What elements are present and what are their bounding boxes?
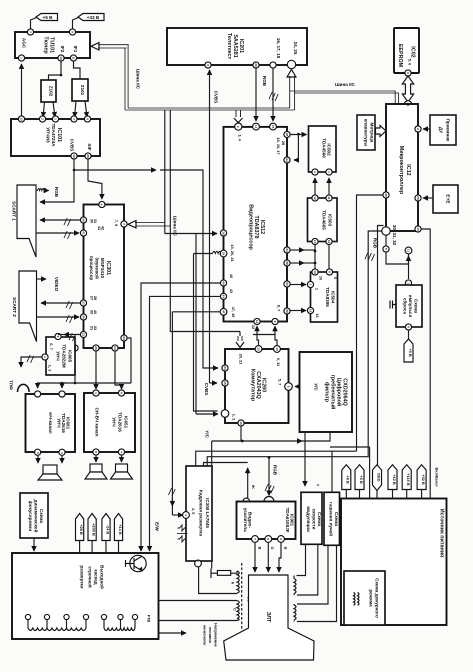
svg-text:СН-ВЧ канал: СН-ВЧ канал (95, 408, 100, 437)
svg-text:FTB: FTB (147, 615, 152, 623)
IC260 bottom pin 16 (238, 420, 244, 426)
MSP pins 21,22 (80, 331, 86, 337)
svg-text:1: 1 (308, 284, 312, 286)
IC503 pin 12 (312, 195, 318, 201)
wire 47,48 from EW line (172, 312, 220, 515)
svg-text:11: 11 (406, 249, 410, 253)
power flag +5V (36, 14, 58, 21)
svg-text:Источник питания: Источник питания (439, 509, 445, 557)
IC512 right pin 24 (284, 157, 290, 163)
MSP pins 41,42 (80, 230, 86, 236)
deflection yoke coil K (237, 571, 239, 593)
svg-text:1: 1 (406, 282, 410, 284)
IC512 bottom pins 8,7 (272, 318, 278, 324)
svg-text:6: 6 (56, 336, 60, 338)
flag +14V (114, 514, 122, 541)
svg-text:Цифровой: Цифровой (336, 378, 343, 406)
svg-text:строчной: строчной (88, 566, 94, 588)
I2C bus tee to microcontroller (290, 91, 399, 104)
svg-text:Телетекст: Телетекст (226, 33, 232, 60)
svg-text:SCART 2: SCART 2 (12, 297, 17, 317)
wire AGC feedback (21, 64, 23, 119)
MSP pins 30,31 (80, 217, 86, 223)
svg-text:TDA4724A: TDA4724A (51, 124, 56, 148)
svg-text:3: 3 (236, 126, 240, 128)
svg-text:MSP3410: MSP3410 (100, 258, 105, 279)
IC512 pin 18 left (220, 230, 226, 236)
svg-text:гашения лучей: гашения лучей (328, 502, 334, 536)
power amp IC651 TDA2616 (84, 393, 135, 452)
svg-text:7: 7 (72, 118, 76, 120)
supply line to comb filter and vertical resistor (212, 440, 302, 442)
IC512 right pin 34 (284, 247, 290, 253)
svg-text:9: 9 (327, 271, 331, 273)
svg-text:УНЧ: УНЧ (56, 351, 61, 360)
svg-text:Шина IIC: Шина IIC (335, 82, 356, 87)
flag +5V (355, 465, 364, 490)
uC right pin standby (415, 226, 421, 232)
IC512 pins 47,48 left (220, 308, 227, 315)
wire Z102 out b (53, 102, 55, 117)
SCART 1 connector (12, 185, 37, 257)
svg-text:ДУ: ДУ (439, 127, 444, 133)
IC504 pin 16 (307, 307, 313, 313)
svg-text:47, 48: 47, 48 (231, 307, 236, 319)
IC503 bottom pins (312, 238, 318, 244)
svg-text:38: 38 (285, 261, 289, 265)
Y/C pair verticals (194, 233, 218, 414)
svg-text:+115 В: +115 В (406, 473, 411, 486)
wire from IC512 bottom into IC260 top pins (257, 335, 259, 346)
svg-text:фокусировки: фокусировки (28, 501, 34, 532)
svg-text:Кадровая развертка: Кадровая развертка (199, 490, 204, 537)
IK beam current line (204, 463, 248, 467)
IC101 pin 13 (18, 116, 24, 122)
IC201 pins 16,17,18 RGB (270, 62, 276, 68)
svg-text:импульса: импульса (408, 295, 413, 318)
svg-text:6: 6 (406, 72, 410, 74)
svg-text:TDA4665: TDA4665 (322, 210, 327, 230)
svg-text:RGB: RGB (373, 238, 378, 249)
svg-text:SCART 1: SCART 1 (12, 201, 17, 221)
SIF wire to sound processor (88, 159, 102, 199)
svg-text:+5 В: +5 В (43, 15, 54, 20)
svg-text:19, 20, 21: 19, 20, 21 (230, 244, 235, 262)
svg-text:13: 13 (256, 347, 260, 351)
svg-text:+12 В: +12 В (392, 474, 397, 485)
svg-text:RGB: RGB (273, 465, 278, 476)
svg-text:16: 16 (239, 421, 243, 425)
flag DEG (373, 465, 382, 491)
svg-text:Шина IIC: Шина IIC (136, 69, 141, 90)
svg-text:Схема: Схема (317, 512, 322, 527)
IC101 pin 8 (84, 116, 90, 122)
svg-text:8, 7: 8, 7 (277, 305, 282, 312)
IC512 right pin 37 (284, 281, 290, 287)
svg-text:4: 4 (100, 204, 104, 206)
wire stage to yoke return (159, 620, 238, 622)
I2C bus arrow up into 24,25 (287, 70, 296, 78)
standby transformer symbol (354, 593, 360, 606)
svg-text:7: 7 (122, 223, 126, 225)
IC201 pin 9 CVBS (205, 62, 211, 68)
svg-text:47: 47 (221, 310, 225, 314)
svg-text:IC12: IC12 (405, 164, 411, 175)
svg-text:1: 1 (53, 118, 57, 120)
junction dot (60, 74, 63, 77)
wire IF1 to Z101 (74, 61, 81, 79)
IC503 pin 11 (326, 195, 332, 201)
svg-text:EEPROM: EEPROM (397, 44, 403, 68)
svg-text:9: 9 (406, 326, 410, 328)
MSP right lower pin (121, 335, 127, 341)
svg-text:43: 43 (221, 295, 225, 299)
svg-text:2: 2 (196, 560, 200, 562)
svg-text:15, 16, 17: 15, 16, 17 (276, 137, 281, 154)
svg-text:CVBS: CVBS (70, 139, 75, 152)
svg-text:10: 10 (313, 270, 317, 274)
line to vertical deflection (196, 451, 357, 466)
IC512 bottom pin 12 (254, 318, 260, 324)
CVBS node wire down (40, 159, 74, 202)
tuner pin 10 IF2 (58, 55, 64, 61)
PSU feed wire (369, 447, 371, 498)
svg-text:28: 28 (285, 133, 289, 137)
wire Z102 out a (43, 102, 45, 117)
MSP bottom pin b (93, 345, 99, 351)
svg-text:Выходной: Выходной (100, 565, 106, 589)
svg-text:развертки: развертки (80, 565, 85, 588)
IC504 pin 1 (307, 281, 313, 287)
svg-text:30, 31, 32: 30, 31, 32 (392, 225, 397, 246)
RGB wire from uC pins 30,31,32 down right channel (368, 231, 382, 457)
remote pin 2 on uC (415, 126, 421, 132)
svg-text:процессор: процессор (89, 256, 94, 281)
svg-text:46: 46 (406, 103, 410, 107)
deflection yoke coil C (237, 601, 239, 621)
svg-text:2: 2 (416, 128, 420, 130)
IC605 top pin (55, 333, 61, 339)
svg-text:20: 20 (416, 196, 420, 200)
wire IC503-11 up to IC502-1 (328, 178, 330, 195)
IC504 pin 9 (326, 269, 332, 275)
audio wire into SCART2 (41, 302, 84, 304)
svg-text:16, 17, 18: 16, 17, 18 (276, 38, 281, 59)
svg-text:25: 25 (73, 346, 77, 350)
svg-text:34: 34 (285, 248, 289, 252)
IC101 pin 7 (71, 116, 77, 122)
IC101 pin 1 (52, 116, 58, 122)
power amp IC681 TDA2616 (26, 394, 76, 452)
IC512 right pin 28 (284, 131, 290, 137)
svg-text:каскад: каскад (94, 569, 99, 584)
wire +5V to tuner pin 7 (31, 18, 37, 30)
svg-text:15: 15 (271, 125, 275, 129)
svg-text:9: 9 (119, 392, 123, 394)
svg-text:7, 8: 7, 8 (114, 220, 119, 227)
svg-text:1: 1 (19, 57, 23, 59)
svg-text:5: 5 (244, 501, 248, 503)
IC300 pin 4,5 (183, 512, 190, 519)
svg-text:Y: Y (316, 484, 321, 487)
svg-text:24, 25: 24, 25 (293, 42, 298, 55)
IC260 right pin 5,7 (285, 383, 293, 391)
CRT heater supply arrow (159, 632, 187, 634)
capacitor stub (390, 301, 396, 309)
IC504 TDA8395 (311, 272, 338, 322)
svg-text:24: 24 (285, 158, 289, 162)
svg-text:20, 21: 20, 21 (239, 354, 244, 366)
uC pin 45 left (383, 192, 389, 198)
flag +8V (342, 465, 351, 490)
svg-text:IC300 LA7845: IC300 LA7845 (205, 498, 210, 528)
DEG control wire (378, 226, 384, 466)
IC260 left pins (222, 365, 228, 371)
flag +28V (76, 514, 84, 541)
I2C bus arrow into IC512 pins 3,4 (234, 118, 243, 123)
svg-text:1: 1 (43, 356, 47, 358)
I2C bus jog down to horizontal run (125, 45, 128, 110)
svg-text:IC605: IC605 (68, 350, 73, 363)
coil A beside CRT neck (294, 576, 296, 596)
flag +12V (388, 465, 397, 490)
CVBS branch down to commutator (203, 233, 218, 368)
wire IC503-12 up to IC502-2 (314, 178, 316, 195)
svg-text:28: 28 (86, 154, 90, 158)
wire RGB to IC512 (272, 68, 274, 121)
svg-text:41: 41 (81, 231, 85, 235)
svg-text:5: 5 (286, 386, 290, 388)
EYE pin 20 on uC (415, 195, 421, 201)
speaker right (121, 455, 123, 462)
svg-text:Коммутатор: Коммутатор (250, 369, 256, 402)
E/W line vertical (172, 514, 183, 516)
uC bottom pins 30,31,32 (382, 227, 390, 235)
svg-text:16: 16 (72, 154, 76, 158)
svg-text:1: 1 (267, 501, 271, 503)
IC502 pin 2 (312, 169, 318, 175)
svg-text:24: 24 (223, 366, 227, 370)
flag +115V (402, 465, 411, 490)
svg-text:DEG: DEG (376, 473, 381, 481)
bidirectional bus arrow EEPROM-microcontroller (402, 76, 413, 102)
svg-text:19: 19 (221, 252, 225, 256)
svg-text:1: 1 (327, 171, 331, 173)
svg-text:8: 8 (266, 538, 270, 540)
IC681 bottom pins (35, 449, 41, 455)
svg-text:IK: IK (251, 485, 256, 489)
svg-text:12: 12 (313, 196, 317, 200)
I2C bus arrow into tuner (91, 43, 99, 51)
svg-text:Матрица: Матрица (370, 123, 375, 143)
wire IF2 to Z102 (49, 61, 62, 80)
node: bus corner to horizontal I2C pair (125, 108, 295, 110)
Y signal from comb filter to velocity block (304, 432, 306, 486)
node below uC (385, 235, 387, 247)
svg-text:9: 9 (279, 538, 283, 540)
IC300 pin 2 bottom (195, 560, 202, 567)
svg-text:IC02: IC02 (410, 46, 416, 57)
svg-text:+32 В: +32 В (421, 474, 426, 485)
IC901 bottom pins B G R (252, 536, 259, 543)
IC605 left pin (42, 354, 48, 360)
beam limiter feed (331, 451, 333, 492)
coil B beside CRT neck (294, 604, 296, 622)
svg-text:+5 В: +5 В (359, 475, 364, 484)
svg-text:10: 10 (59, 56, 63, 60)
IF amp IC101 TDA4724A (11, 119, 100, 156)
svg-text:9: 9 (70, 31, 74, 33)
svg-text:7: 7 (28, 31, 32, 33)
svg-text:Микроконтроллер: Микроконтроллер (398, 146, 404, 195)
svg-text:В: В (258, 547, 263, 550)
CVBS wire to videoprocessor (74, 170, 203, 227)
svg-text:CVBS: CVBS (214, 91, 219, 104)
keyboard matrix block (357, 115, 375, 150)
svg-text:TDA6108JF: TDA6108JF (285, 507, 290, 532)
RGB drop to video amplifier (268, 457, 270, 495)
IC260 top pins (255, 346, 262, 353)
svg-text:ЭЛТ: ЭЛТ (265, 612, 271, 623)
IC512 pins 15,16,17 (270, 123, 277, 130)
svg-text:5, 6: 5, 6 (408, 59, 413, 66)
svg-text:30: 30 (81, 218, 85, 222)
svg-text:сброса: сброса (403, 298, 409, 314)
svg-text:40: 40 (221, 281, 225, 285)
svg-text:У/С: У/С (314, 383, 319, 391)
IC512 pins 19,20,21 left (220, 250, 227, 257)
svg-text:+5 В: +5 В (408, 348, 413, 357)
svg-text:УНЧ: УНЧ (57, 418, 62, 427)
sawtooth symbols (178, 525, 187, 542)
block outputs down to CRT coils (297, 545, 318, 596)
svg-text:24: 24 (113, 346, 117, 350)
CVBS wire down from teletext (209, 70, 211, 383)
svg-text:гребенчатый: гребенчатый (330, 375, 337, 410)
svg-text:9: 9 (206, 64, 210, 66)
svg-text:1: 1 (36, 396, 40, 398)
reset block bottom pin (405, 324, 411, 330)
svg-text:7: 7 (253, 538, 257, 540)
SCART 2 connector (12, 271, 37, 342)
svg-text:6, 7: 6, 7 (49, 343, 54, 350)
svg-text:6: 6 (36, 452, 40, 454)
VIDEO out wire (37, 278, 47, 280)
microcontroller pin 46,48 (404, 101, 412, 109)
svg-text:15: 15 (416, 227, 420, 231)
MSP bottom pin c (112, 345, 118, 351)
svg-text:Приемник: Приемник (446, 119, 451, 142)
svg-text:кинескопа: кинескопа (203, 625, 208, 646)
wire IC260 pin16 joins supply line (240, 426, 242, 441)
wire line stage to yoke C (159, 600, 238, 602)
svg-text:13: 13 (19, 117, 23, 121)
svg-text:-14 В: -14 В (105, 525, 110, 535)
svg-text:40: 40 (229, 274, 234, 278)
svg-text:TDA4566: TDA4566 (322, 138, 327, 158)
svg-text:11: 11 (71, 56, 75, 60)
svg-text:IF2: IF2 (60, 46, 65, 53)
svg-text:Шина IIC: Шина IIC (173, 216, 178, 237)
IC512 pin 43 left (220, 293, 226, 299)
IC101 pin 2 (39, 116, 45, 122)
vertical links IC503-IC504 (315, 245, 329, 270)
svg-text:4: 4 (184, 514, 188, 516)
filter Z101 (72, 79, 88, 101)
svg-text:+14 В: +14 В (118, 524, 123, 535)
svg-text:9: 9 (60, 396, 64, 398)
wires up into bottom pins (256, 326, 258, 334)
IC651 pin 1 (93, 390, 99, 396)
svg-text:2: 2 (313, 171, 317, 173)
svg-text:4: 4 (60, 452, 64, 454)
svg-text:Тюнер: Тюнер (43, 36, 49, 54)
svg-text:режима: режима (369, 589, 374, 607)
yoke dashed core (241, 563, 243, 629)
I2C arrow into commutator (236, 342, 244, 348)
svg-text:питания: питания (208, 627, 213, 643)
svg-text:модуляции: модуляции (306, 506, 311, 532)
svg-text:G: G (270, 546, 275, 549)
IC201 pins 24,25 I2C (287, 60, 295, 68)
svg-text:С: С (233, 608, 238, 611)
cathode drive wires (254, 543, 256, 573)
IC512 pin 40 left (220, 280, 226, 286)
svg-text:+200 В: +200 В (91, 523, 96, 536)
svg-text:5: 5 (384, 248, 388, 250)
svg-text:VIDEO: VIDEO (54, 277, 59, 292)
svg-text:27: 27 (81, 301, 85, 305)
IC512 right pin 36 (284, 308, 290, 314)
svg-text:клавиатуры: клавиатуры (364, 119, 369, 147)
svg-text:Z101: Z101 (80, 85, 85, 96)
remote receiver block (430, 115, 456, 145)
RGB bundle out of SCART1 (37, 189, 49, 191)
FBT windings (25, 614, 30, 619)
svg-text:SIF: SIF (87, 143, 92, 150)
RGB harness turn toward IC300 (207, 457, 368, 466)
svg-text:AGC: AGC (22, 38, 27, 49)
svg-text:ТЛФ: ТЛФ (9, 380, 14, 390)
svg-text:динамической: динамической (34, 500, 40, 533)
svg-text:Схема: Схема (334, 512, 339, 527)
IC503 TDA4665 (308, 198, 338, 242)
svg-text:5, 7: 5, 7 (278, 379, 283, 386)
svg-text:фильтр: фильтр (324, 382, 331, 403)
svg-text:8: 8 (94, 451, 98, 453)
vertical output resistor to yoke (199, 567, 237, 594)
IC651 pin 9 (118, 390, 124, 396)
EEPROM pin (405, 70, 411, 76)
svg-text:14: 14 (254, 125, 258, 129)
svg-text:усилитель: усилитель (243, 508, 248, 532)
svg-text:скорости: скорости (312, 509, 317, 530)
svg-text:Y/C: Y/C (205, 430, 210, 438)
svg-text:3, 4: 3, 4 (238, 134, 243, 141)
svg-text:2: 2 (40, 118, 44, 120)
IC504 pin 10 (312, 269, 318, 275)
tuner pin 11 IF1 (70, 55, 76, 61)
HOT transistor (126, 555, 147, 571)
MSP pin 4 top (99, 201, 105, 207)
svg-text:9, 11: 9, 11 (276, 358, 281, 367)
IC101 pin 28 SIF (85, 153, 91, 159)
svg-text:НЧ-канал: НЧ-канал (48, 412, 53, 433)
IC502 TDA4566 (309, 126, 337, 172)
svg-text:18: 18 (221, 231, 225, 235)
svg-text:16: 16 (327, 240, 331, 244)
svg-text:11: 11 (327, 196, 331, 200)
